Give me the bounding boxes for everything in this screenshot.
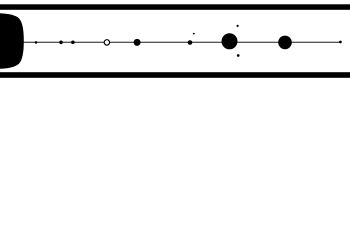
moon speck above planet dot 5 <box>193 33 195 35</box>
bottom border bar <box>0 72 350 78</box>
planet dot 1 (Mercury) <box>35 41 38 44</box>
moon speck below planet dot 6 <box>237 54 240 57</box>
open circle planet (white disc with black ring) <box>104 40 109 45</box>
wire: horizontal distance line <box>18 41 340 43</box>
filled planet dot 4 <box>134 39 141 46</box>
top border bar <box>0 4 350 10</box>
large planet dot 6 (Jupiter) <box>222 33 238 49</box>
planet dot 2 (Venus) <box>59 41 63 45</box>
moon speck above planet dot 6 <box>237 25 239 27</box>
large planet dot 7 (Saturn) <box>278 36 292 50</box>
sun (large semi-ellipse at left edge) <box>0 13 24 69</box>
end dot at right of line <box>339 41 342 44</box>
planet dot 5 (Mars) <box>188 40 193 45</box>
planet dot 3 (Earth) <box>71 41 75 45</box>
